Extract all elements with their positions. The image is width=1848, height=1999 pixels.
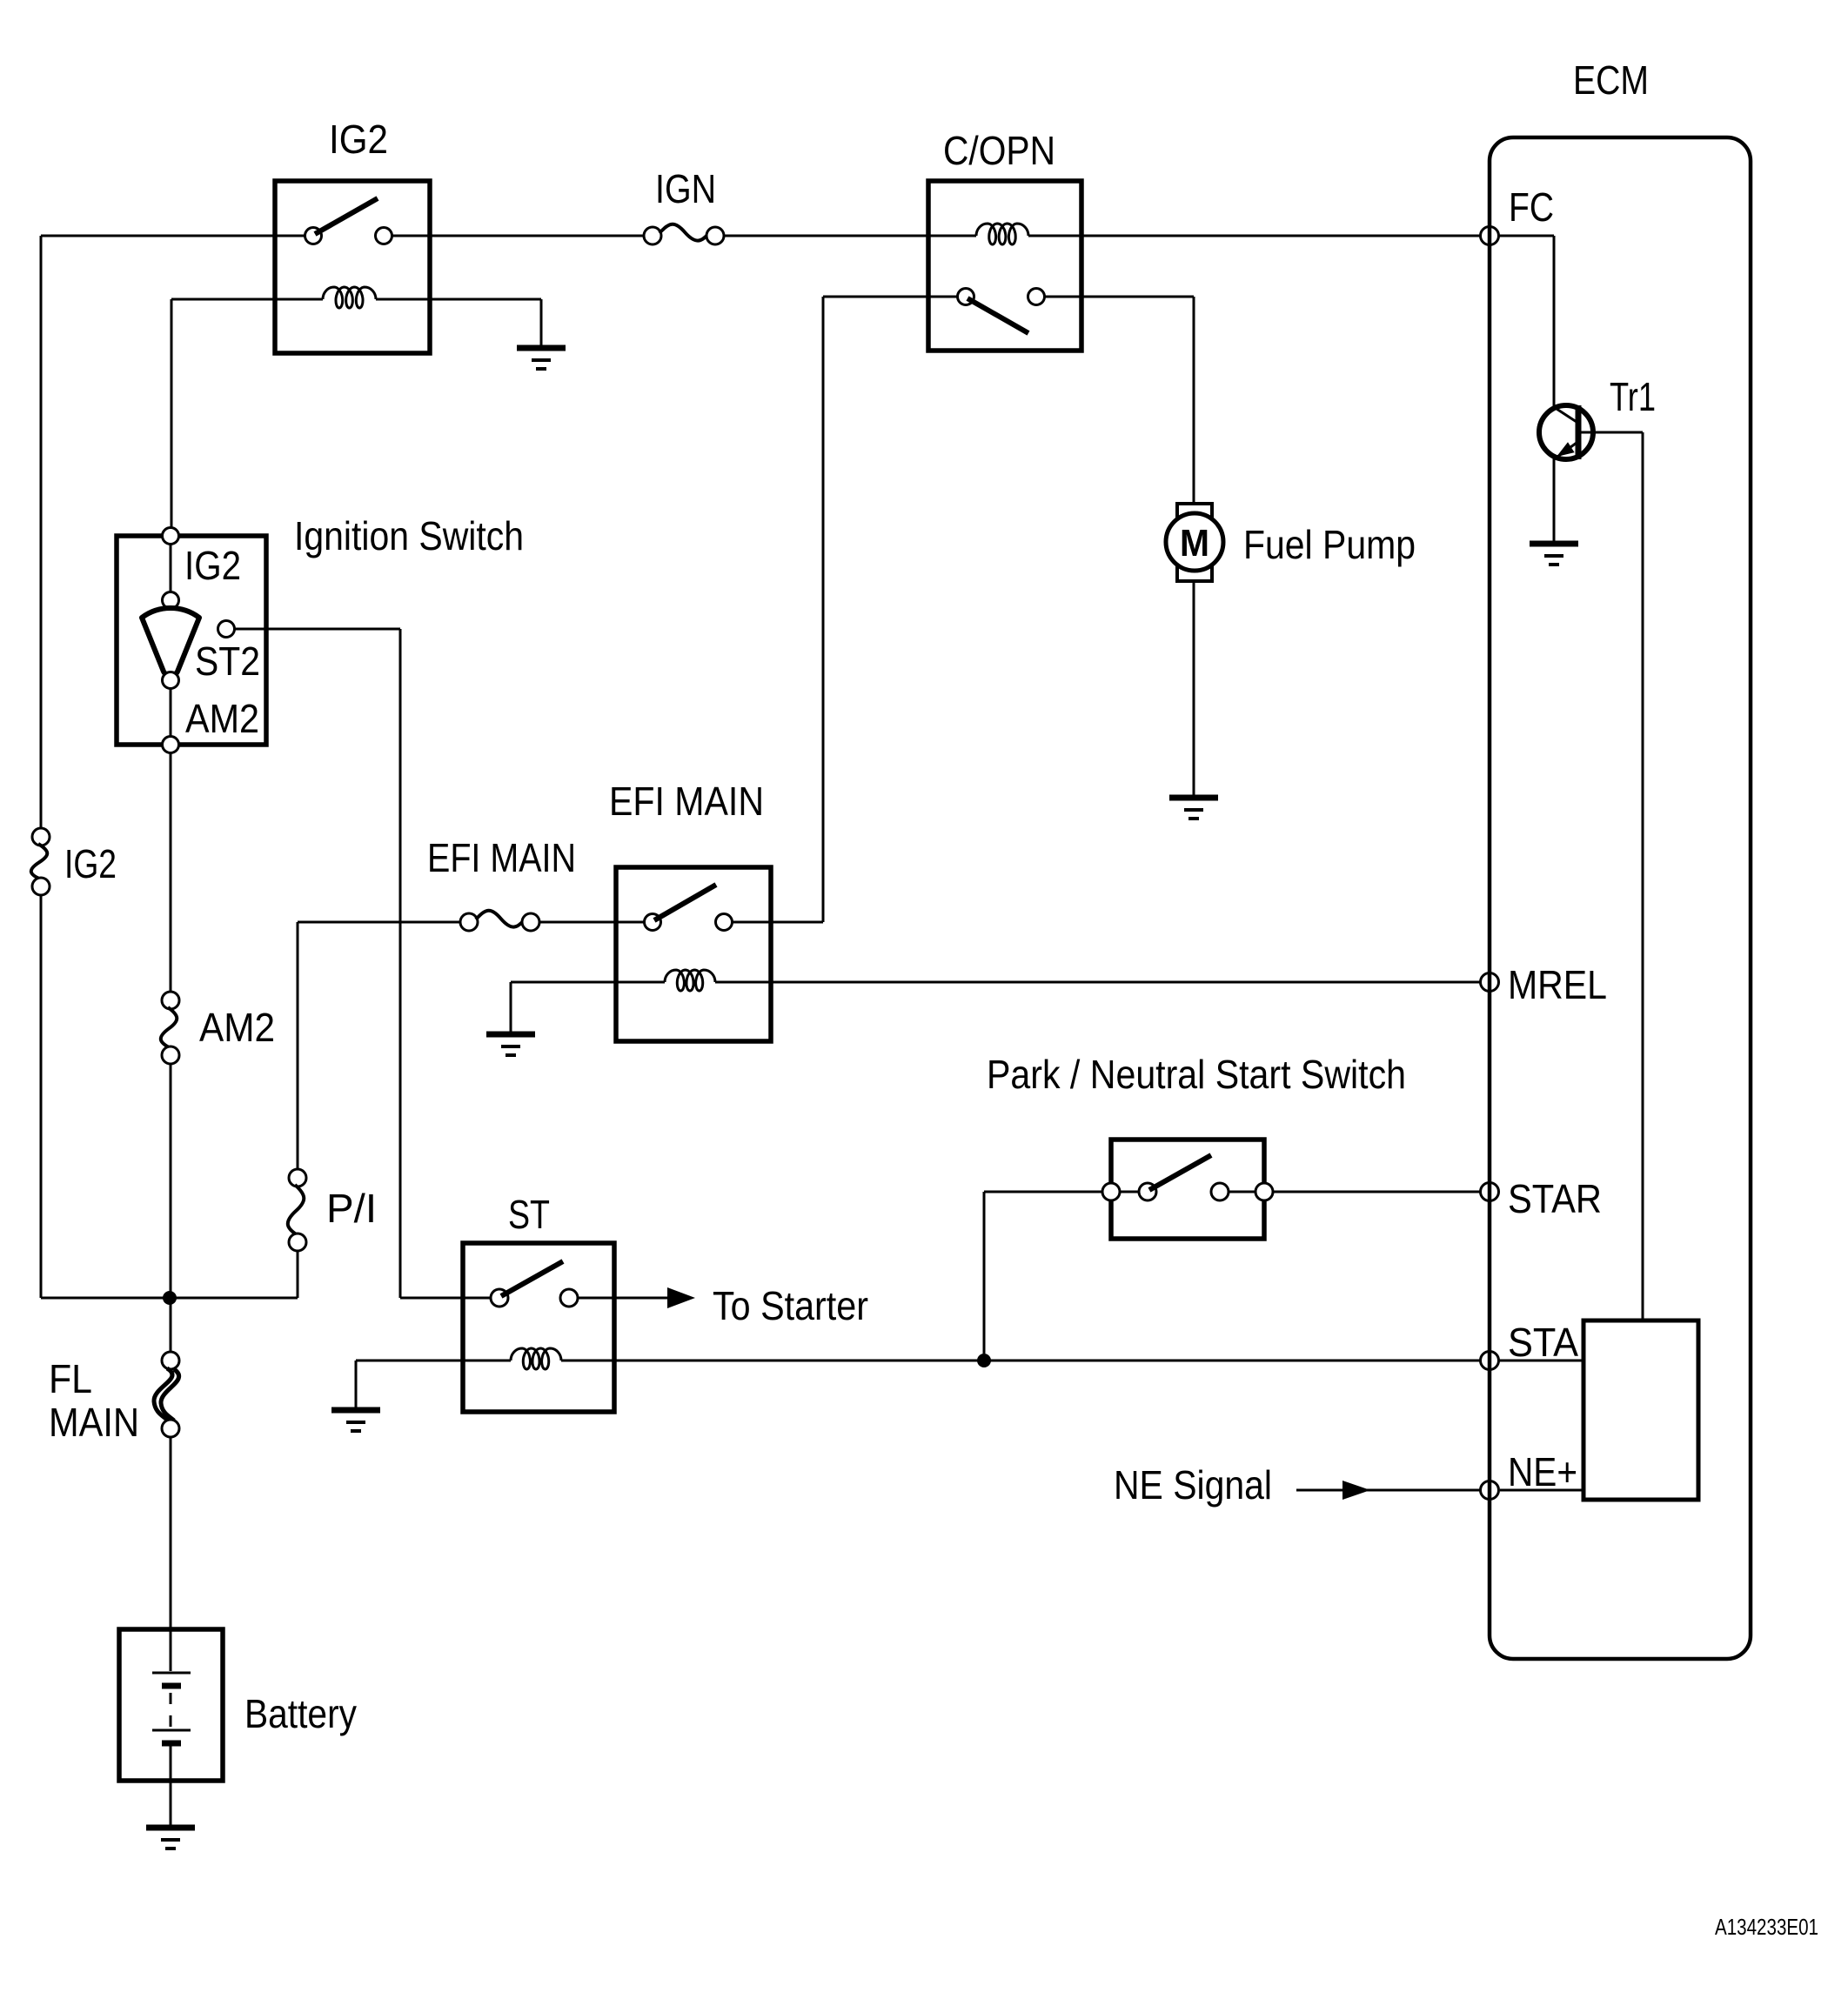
wire EFI relay to C/OPN switch [733, 921, 823, 924]
relay C/OPN box [928, 181, 1081, 351]
terminal P/N inner right [1211, 1183, 1229, 1200]
node junction battery feed [163, 1291, 177, 1305]
battery cell1 plate short [162, 1683, 181, 1689]
wire B+ top rail left segment [41, 235, 305, 237]
fuse FL MAIN top terminal [162, 1352, 179, 1369]
fuse P/I element [288, 1185, 304, 1235]
wire ST coil to STA [561, 1360, 1481, 1362]
terminal IG2 of ignition switch [163, 528, 179, 545]
inductor EFI MAIN relay coil [665, 970, 715, 991]
wire C/OPN switch to fuel pump [1045, 296, 1194, 298]
wire ST2 to ST relay [234, 628, 400, 631]
wire P/I top rail to EFI fuse [298, 921, 461, 924]
fuse P/I top terminal [289, 1169, 306, 1187]
wire ignition rotor stem [170, 544, 172, 592]
fuse IGN element [660, 224, 708, 241]
wire Tr1 base to driver box [1578, 431, 1643, 434]
node FC terminal [1481, 227, 1499, 245]
terminal rotor bottom [163, 672, 179, 689]
battery cell2 plate long [152, 1729, 191, 1732]
fuse IGN right terminal [706, 227, 724, 244]
wire P/N inner left [1120, 1191, 1140, 1193]
inductor IG2 relay coil [323, 287, 376, 308]
fuse AM2 top terminal [162, 992, 179, 1009]
svg-text:Battery: Battery [244, 1691, 357, 1736]
node STA terminal [1481, 1352, 1499, 1370]
relay ST switch contact left [491, 1289, 508, 1307]
wire ST switch to starter arrow [578, 1297, 670, 1300]
wire battery bottom lead [170, 1743, 172, 1826]
svg-text:To Starter: To Starter [713, 1283, 868, 1328]
svg-text:NE Signal: NE Signal [1114, 1462, 1272, 1508]
ground battery [146, 1825, 195, 1831]
svg-text:FC: FC [1509, 184, 1554, 230]
svg-text:MAIN: MAIN [49, 1400, 139, 1445]
node NE+ terminal [1481, 1481, 1499, 1500]
wire FC to Tr1 collector [1499, 235, 1554, 237]
switch Ignition Switch box [117, 536, 266, 745]
module ECM box [1490, 137, 1751, 1659]
svg-text:STA: STA [1508, 1320, 1578, 1365]
svg-text:IGN: IGN [655, 166, 716, 211]
wire P/I rail upper [297, 922, 299, 1170]
motor fuel pump top cap [1177, 504, 1212, 522]
battery cell2 plate short [162, 1741, 181, 1747]
fuse AM2 element [161, 1007, 177, 1048]
transistor Tr1 emitter arrow [1557, 442, 1575, 457]
relay C/OPN switch blade [968, 298, 1028, 333]
svg-text:FL: FL [49, 1356, 92, 1401]
svg-text:P/I: P/I [326, 1186, 377, 1231]
battery center dashed [170, 1693, 172, 1728]
fuse EFI MAIN left terminal [460, 913, 478, 931]
svg-text:NE+: NE+ [1508, 1449, 1577, 1494]
fuse EFI MAIN right terminal [522, 913, 539, 931]
fuse IG2 element [31, 844, 47, 879]
svg-text:STAR: STAR [1508, 1176, 1602, 1221]
arrowhead NE signal [1342, 1481, 1370, 1500]
motor fuel pump bottom cap [1177, 563, 1212, 581]
wire ST coil ground lead [356, 1360, 511, 1362]
relay EFI MAIN switch contact right [716, 914, 733, 931]
fuse EFI MAIN element [476, 911, 524, 927]
wire P/N inner right [1229, 1191, 1256, 1193]
wire P/N left lead [984, 1191, 1103, 1193]
svg-text:Fuel Pump: Fuel Pump [1243, 522, 1416, 567]
ground fuel pump [1169, 795, 1218, 801]
wire IG2 coil rail down to ignition switch [171, 299, 173, 529]
wire EFI coil to MREL [715, 981, 1481, 984]
transistor Tr1 circle [1539, 405, 1593, 459]
ground IG2 relay coil [517, 345, 566, 351]
relay IG2 box [275, 181, 430, 353]
svg-text:C/OPN: C/OPN [943, 128, 1055, 173]
ground Tr1 emitter [1530, 541, 1578, 547]
wire C/OPN coil to FC [1028, 235, 1481, 237]
terminal P/N outer left [1102, 1183, 1120, 1200]
wire AM2 rail through junction [170, 1298, 172, 1353]
relay EFI MAIN switch blade [654, 885, 716, 920]
svg-text:MREL: MREL [1508, 962, 1607, 1007]
svg-text:IG2: IG2 [329, 117, 388, 162]
fuse AM2 bottom terminal [162, 1046, 179, 1064]
wire STA into driver box [1499, 1360, 1584, 1362]
ground ST relay coil [331, 1407, 380, 1414]
node junction STA park-neutral [977, 1354, 991, 1367]
wire EFI fuse to relay [539, 921, 645, 924]
terminal P/N inner left [1139, 1183, 1156, 1200]
transistor Tr1 emitter lead [1554, 443, 1577, 459]
svg-text:ST2: ST2 [195, 638, 260, 684]
fuse IG2 bottom terminal [32, 878, 50, 895]
node MREL terminal [1481, 973, 1499, 992]
wire P/N to STAR [1273, 1191, 1481, 1193]
wire EFI coil ground lead [511, 981, 665, 984]
svg-text:ECM: ECM [1573, 57, 1649, 103]
fusible link FL MAIN element [154, 1368, 172, 1421]
wire battery top lead [170, 1631, 172, 1671]
ground EFI MAIN relay coil [486, 1032, 535, 1038]
block ECM driver box [1584, 1320, 1698, 1500]
transistor Tr1 collector lead [1554, 407, 1577, 422]
wire NE signal lead [1296, 1489, 1481, 1492]
wire battery junction rail [41, 1297, 298, 1300]
relay C/OPN switch contact left [958, 289, 974, 305]
relay IG2 switch blade [315, 198, 378, 234]
motor fuel pump circle [1166, 513, 1223, 571]
relay ST box [463, 1243, 614, 1412]
fuse IG2 top terminal [32, 828, 50, 846]
switch Park/Neutral box [1111, 1140, 1264, 1239]
wire AM2 fuse to FL MAIN [170, 1064, 172, 1353]
svg-text:M: M [1180, 522, 1209, 565]
wire P/I rail lower [297, 1251, 299, 1298]
svg-text:IG2: IG2 [184, 543, 241, 588]
relay EFI MAIN switch contact left [645, 914, 661, 931]
svg-text:Ignition Switch: Ignition Switch [294, 513, 524, 558]
svg-text:AM2: AM2 [185, 696, 259, 741]
relay IG2 switch contact right [376, 228, 392, 244]
fuse P/I bottom terminal [289, 1233, 306, 1251]
wire FL MAIN to battery [170, 1437, 172, 1631]
terminal ST2 of ignition switch [218, 621, 235, 638]
wire left rail lower [40, 895, 43, 1298]
terminal rotor top [163, 592, 179, 609]
terminal AM2 of ignition switch [163, 737, 179, 753]
fuse FL MAIN bottom terminal [162, 1420, 179, 1437]
wire IG2 switch to IGN fuse [392, 235, 645, 237]
wire IG2 coil left lead [171, 298, 323, 301]
relay C/OPN switch contact right [1028, 289, 1045, 305]
relay ST switch contact right [560, 1289, 578, 1307]
svg-text:EFI MAIN: EFI MAIN [609, 779, 764, 824]
inductor C/OPN coil [976, 224, 1028, 244]
wire IG2 coil right lead to ground [376, 298, 541, 301]
svg-text:Park / Neutral Start Switch: Park / Neutral Start Switch [987, 1052, 1406, 1097]
wire NE+ into driver box [1500, 1489, 1584, 1492]
wire Tr1 emitter to ground [1553, 458, 1556, 542]
relay ST switch blade [501, 1261, 563, 1296]
rotor wedge ignition switch [142, 608, 199, 676]
wire AM2 rail to fuse [170, 752, 172, 993]
battery box [119, 1629, 223, 1781]
inductor ST relay coil [511, 1348, 561, 1369]
wire left rail upper [40, 236, 43, 829]
arrowhead to starter [667, 1287, 695, 1308]
svg-text:ST: ST [508, 1192, 550, 1237]
svg-text:AM2: AM2 [199, 1005, 275, 1050]
svg-text:Tr1: Tr1 [1610, 374, 1656, 419]
wire fuel pump to ground [1193, 581, 1195, 796]
fuse IGN left terminal [644, 227, 661, 244]
node STAR terminal [1481, 1183, 1499, 1201]
wire IGN fuse to C/OPN coil [724, 235, 976, 237]
switch P/N blade [1149, 1155, 1211, 1190]
svg-text:IG2: IG2 [64, 841, 117, 886]
relay EFI MAIN box [616, 867, 771, 1041]
svg-text:EFI MAIN: EFI MAIN [427, 835, 576, 880]
svg-text:A134233E01: A134233E01 [1715, 1914, 1818, 1940]
transistor Tr1 base bar [1576, 405, 1582, 459]
terminal P/N outer right [1255, 1183, 1273, 1200]
battery cell1 plate long [152, 1672, 191, 1675]
relay IG2 switch contact left [305, 228, 322, 244]
wire rotor to AM2 terminal [170, 688, 172, 737]
